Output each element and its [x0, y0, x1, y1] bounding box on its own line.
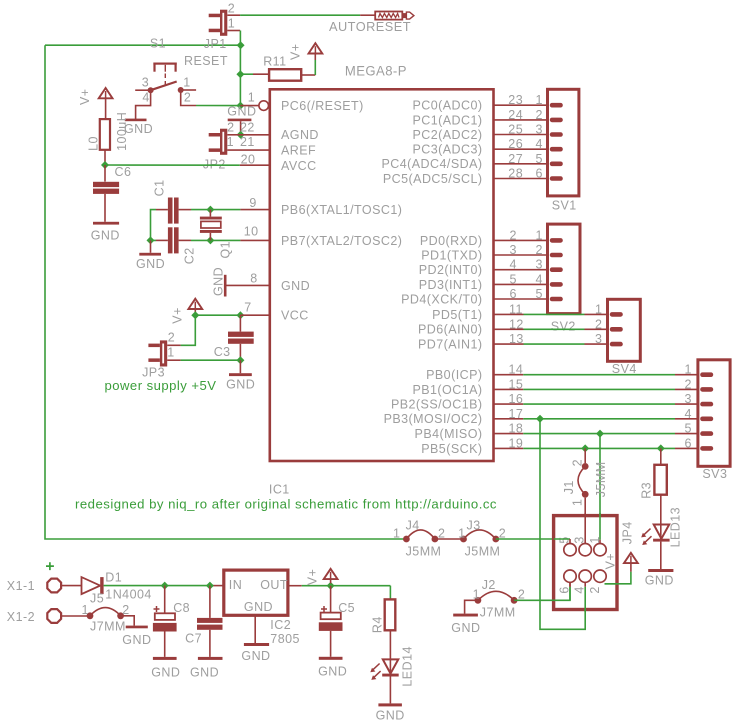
wire JP4 pin6 stub: [569, 582, 571, 600]
svg-text:100uH: 100uH: [115, 112, 129, 151]
pin line 10: [240, 239, 269, 241]
wire XTAL2 net pin 10: [191, 239, 240, 241]
svg-text:1: 1: [571, 499, 585, 506]
ground C5 GND: [318, 657, 347, 679]
svg-text:GND: GND: [451, 621, 480, 635]
svg-text:R4: R4: [370, 616, 384, 633]
svg-text:7805: 7805: [270, 632, 300, 646]
junction node C7: [206, 582, 214, 590]
solder jumper J5 J7MM: [82, 592, 130, 634]
svg-text:OUT: OUT: [260, 578, 288, 592]
capacitor C5 (polarized): [319, 586, 355, 657]
wire JP4 pin4 stub: [584, 582, 586, 612]
svg-text:J2: J2: [482, 578, 496, 592]
svg-text:PD7(AIN1): PD7(AIN1): [418, 338, 482, 352]
wire SCK to J1: [584, 448, 586, 463]
svg-text:2: 2: [228, 1, 235, 15]
LED LED14: [370, 646, 414, 703]
svg-text:C2: C2: [182, 247, 196, 264]
svg-text:PB1(OC1A): PB1(OC1A): [412, 383, 482, 397]
svg-text:2: 2: [588, 586, 602, 593]
svg-text:V+: V+: [604, 553, 618, 570]
svg-text:10: 10: [244, 225, 259, 239]
wire PD1 pin3: [494, 254, 549, 256]
wire AVCC pin 20: [240, 164, 270, 166]
svg-text:J4: J4: [406, 519, 420, 533]
svg-text:PC2(ADC2): PC2(ADC2): [412, 128, 482, 142]
wire XTAL gnd left: [151, 210, 157, 241]
junction node RESET/JP1: [237, 41, 245, 49]
connector SV1: [548, 89, 579, 212]
ground C7 GND: [190, 657, 223, 680]
svg-text:LED13: LED13: [669, 507, 683, 547]
op IC1 MEGA8 box: [270, 89, 494, 461]
wire JP1 pin2 to autoreset: [240, 14, 360, 16]
wire PD5 pin11: [494, 313, 610, 315]
wire RESET loop net (left big loop): [45, 44, 241, 46]
ground C8 GND: [151, 657, 180, 680]
svg-text:5: 5: [510, 272, 517, 286]
svg-text:D1: D1: [105, 571, 122, 585]
ground (crystal) GND: [136, 240, 165, 271]
jumper JP2: [203, 120, 270, 171]
crystal Q1: [200, 210, 233, 259]
svg-text:2: 2: [184, 91, 191, 105]
svg-text:2: 2: [168, 331, 175, 345]
svg-text:SV1: SV1: [552, 199, 577, 213]
svg-text:4: 4: [685, 407, 692, 421]
svg-text:15: 15: [509, 377, 524, 391]
svg-text:5: 5: [536, 287, 543, 301]
svg-text:GND: GND: [226, 377, 255, 391]
svg-text:1: 1: [393, 527, 400, 541]
svg-text:22: 22: [240, 120, 255, 134]
svg-text:1: 1: [685, 363, 692, 377]
wire JP4 pin3 stub: [584, 513, 586, 544]
wire J3 to JP4 pin5: [496, 538, 570, 541]
svg-text:2: 2: [571, 459, 585, 466]
junction node OUT/C5/V+: [327, 582, 335, 590]
svg-text:12: 12: [509, 317, 524, 331]
svg-text:18: 18: [509, 422, 524, 436]
label pins right side: [381, 99, 482, 456]
svg-text:2: 2: [227, 120, 234, 134]
wire PD3 pin5: [494, 283, 549, 285]
svg-text:IC1: IC1: [269, 483, 290, 497]
svg-text:PD6(AIN0): PD6(AIN0): [418, 323, 482, 337]
ground J5 GND: [121, 616, 152, 647]
power V+ (L0): [78, 88, 112, 119]
wire J4 to J3: [435, 538, 464, 540]
svg-text:PC1(ADC1): PC1(ADC1): [412, 113, 482, 127]
svg-text:JP2: JP2: [203, 157, 226, 171]
svg-text:19: 19: [509, 436, 524, 450]
svg-text:X1-2: X1-2: [7, 610, 35, 624]
svg-text:PB0(ICP): PB0(ICP): [426, 368, 482, 382]
svg-text:JP4: JP4: [621, 521, 635, 544]
svg-text:GND: GND: [241, 649, 270, 663]
svg-text:J1: J1: [562, 480, 576, 494]
svg-text:1N4004: 1N4004: [105, 588, 152, 602]
junction node AGND: [237, 131, 245, 139]
ground LED13 GND: [645, 569, 674, 588]
svg-text:X1-1: X1-1: [7, 579, 35, 593]
wire PD7 pin13: [494, 343, 610, 345]
wire J2 to JP4 pin6: [514, 587, 570, 601]
svg-text:V+: V+: [78, 88, 92, 105]
svg-text:PC4(ADC4/SDA): PC4(ADC4/SDA): [381, 157, 482, 171]
wire PC3 pin26: [494, 148, 549, 150]
svg-text:GND: GND: [281, 279, 310, 293]
svg-text:PD2(INT0): PD2(INT0): [419, 263, 483, 277]
svg-text:6: 6: [510, 287, 517, 301]
svg-text:1: 1: [227, 135, 234, 149]
junction node C3/JP3/GND: [236, 356, 244, 364]
svg-text:SV3: SV3: [702, 467, 727, 481]
junction node PB4/MISO: [596, 430, 604, 438]
svg-text:SV4: SV4: [612, 362, 637, 376]
wire MOSI to JP4 pin4: [540, 419, 585, 630]
svg-text:4: 4: [536, 137, 543, 151]
svg-text:PB2(SS/OC1B): PB2(SS/OC1B): [391, 398, 483, 412]
solder jumper J4 J5MM: [403, 519, 445, 559]
svg-text:PD5(T1): PD5(T1): [432, 308, 482, 322]
svg-text:2: 2: [518, 588, 525, 602]
svg-text:1: 1: [473, 588, 480, 602]
svg-text:2: 2: [122, 603, 129, 617]
resistor R4: [370, 586, 395, 660]
svg-text:PD0(RXD): PD0(RXD): [420, 234, 483, 248]
wire PC5 pin28: [494, 178, 549, 180]
wire PB1 pin15: [494, 388, 700, 390]
capacitor C2: [156, 227, 196, 264]
svg-text:2: 2: [685, 377, 692, 391]
svg-text:5: 5: [685, 422, 692, 436]
junction node XTAL2/Q1: [206, 236, 214, 244]
wire JP4 pin5 stub: [554, 539, 570, 544]
junction node C2/GND: [147, 236, 155, 244]
svg-text:C8: C8: [173, 601, 190, 615]
svg-text:V+: V+: [306, 569, 320, 586]
ground IC2 GND: [241, 643, 270, 663]
svg-text:GND: GND: [136, 257, 165, 271]
svg-text:J7MM: J7MM: [480, 606, 516, 620]
junction node XTAL1/Q1: [206, 206, 214, 214]
ground (above JP2, inverted): [228, 119, 252, 135]
wire PD2 pin4: [494, 269, 549, 271]
svg-text:J3: J3: [467, 519, 481, 533]
svg-text:PB3(MOSI/OC2): PB3(MOSI/OC2): [384, 412, 483, 426]
wire MISO to JP4 pin1: [599, 434, 601, 540]
junction node PB3/MOSI: [536, 415, 544, 423]
svg-text:C1: C1: [152, 180, 166, 197]
svg-text:JP1: JP1: [204, 37, 227, 51]
wire S1 pin2 to RESET junction: [196, 105, 240, 107]
junction node PB5/SCK: [581, 444, 589, 452]
wire PD6 pin12: [494, 328, 610, 330]
svg-text:PC5(ADC5/SCL): PC5(ADC5/SCL): [383, 172, 483, 186]
svg-text:C5: C5: [338, 601, 355, 615]
wire AGND pin 22: [241, 134, 270, 136]
svg-text:AGND: AGND: [281, 128, 319, 142]
svg-text:SV2: SV2: [551, 320, 576, 334]
solder jumper J2 J7MM: [473, 578, 526, 620]
wire XTAL1 net pin 9: [191, 209, 240, 211]
svg-text:PC6(/RESET): PC6(/RESET): [281, 99, 364, 113]
connector SV3: [698, 360, 730, 481]
pin 1 inversion bubble PC6: [259, 101, 269, 111]
svg-text:J7MM: J7MM: [90, 620, 126, 634]
svg-text:1: 1: [536, 93, 543, 107]
wire PD4 pin6: [494, 298, 549, 300]
junction node VCC/C3: [236, 311, 244, 319]
resistor R3: [640, 448, 667, 524]
svg-text:V+: V+: [289, 43, 303, 60]
svg-text:PB7(XTAL2/TOSC2): PB7(XTAL2/TOSC2): [281, 234, 402, 248]
svg-text:26: 26: [508, 137, 523, 151]
svg-text:11: 11: [509, 302, 523, 316]
wire PB3 pin17: [494, 418, 700, 420]
wire RESET to PC6 pin: [240, 105, 259, 107]
switch S1: [135, 37, 228, 119]
capacitor C1: [152, 180, 191, 224]
svg-text:PB5(SCK): PB5(SCK): [421, 442, 482, 456]
power V+ (R11): [289, 43, 323, 75]
svg-text:1: 1: [183, 76, 190, 90]
svg-text:AREF: AREF: [281, 144, 316, 158]
svg-text:17: 17: [509, 407, 524, 421]
capacitor C3: [214, 315, 254, 360]
svg-text:1: 1: [248, 91, 255, 105]
svg-text:1: 1: [82, 603, 89, 617]
svg-text:27: 27: [508, 152, 523, 166]
svg-text:C6: C6: [115, 165, 132, 179]
wire V+ to JP4 pin2: [605, 572, 631, 584]
wire PB2 pin16: [494, 403, 700, 405]
ground pin8 (rotated GND): [212, 267, 270, 297]
wire JP3 pin1 to C3 gnd: [181, 359, 241, 361]
svg-text:1: 1: [536, 228, 543, 242]
label plus (power in): [46, 562, 54, 570]
svg-text:LED14: LED14: [400, 646, 414, 686]
svg-text:GND: GND: [318, 665, 347, 679]
jumper JP1: [204, 1, 240, 51]
svg-text:MEGA8-P: MEGA8-P: [345, 64, 407, 79]
svg-text:4: 4: [142, 91, 149, 105]
power V+ (VCC): [170, 299, 202, 324]
svg-text:C3: C3: [214, 345, 231, 359]
wire PC4 pin27: [494, 163, 549, 165]
svg-text:PC0(ADC0): PC0(ADC0): [412, 99, 482, 113]
inductor L0: [87, 112, 129, 165]
svg-text:redesigned by niq_ro after ori: redesigned by niq_ro after original sche…: [75, 498, 497, 512]
connector SV2: [548, 224, 581, 333]
jumper JP3: [142, 331, 181, 380]
svg-text:GND: GND: [645, 574, 674, 588]
svg-text:V+: V+: [170, 307, 184, 324]
wire PB5 pin19: [494, 447, 700, 449]
solder jumper J1 J5MM: [562, 459, 608, 506]
wire JP4 pin2 stub: [605, 583, 619, 585]
ground C6 GND: [91, 222, 120, 243]
regulator IC2 7805: [224, 570, 300, 646]
svg-text:25: 25: [508, 123, 523, 137]
diode D1 1N4004: [82, 571, 152, 602]
svg-text:S1: S1: [150, 37, 166, 51]
junction node AVCC/L0/C6: [101, 161, 109, 169]
svg-text:IC2: IC2: [270, 618, 291, 632]
wire PB0 pin14: [494, 374, 700, 376]
svg-text:1: 1: [228, 16, 235, 30]
svg-text:4: 4: [510, 258, 517, 272]
svg-text:AUTORESET: AUTORESET: [329, 20, 411, 34]
svg-text:JP3: JP3: [142, 366, 165, 380]
solder jumper AUTORESET: [329, 12, 414, 35]
junction node C8: [161, 582, 169, 590]
ground J2 GND: [451, 600, 480, 635]
svg-text:5: 5: [536, 152, 543, 166]
wire JP3 pin2 riser: [181, 315, 196, 345]
svg-text:RESET: RESET: [184, 54, 228, 68]
junction node RESET/PC6: [236, 102, 244, 110]
svg-text:3: 3: [536, 258, 543, 272]
wire PC2 pin25: [494, 134, 549, 136]
svg-text:1: 1: [458, 527, 465, 541]
pad X1-1: [47, 579, 61, 593]
ground C3 GND: [226, 360, 255, 391]
svg-text:J5MM: J5MM: [594, 461, 608, 497]
svg-text:J5MM: J5MM: [465, 545, 501, 559]
capacitor C7: [185, 586, 222, 657]
svg-text:GND: GND: [91, 229, 120, 243]
svg-text:PB4(MISO): PB4(MISO): [415, 427, 483, 441]
svg-text:VCC: VCC: [281, 309, 309, 323]
label pins left side: [281, 99, 402, 323]
svg-text:R11: R11: [263, 54, 286, 68]
svg-text:20: 20: [241, 152, 256, 166]
svg-text:9: 9: [249, 196, 256, 210]
wire PC0 pin23: [494, 104, 549, 106]
wire VCC net: [195, 314, 240, 316]
svg-text:14: 14: [509, 363, 524, 377]
svg-text:GND: GND: [122, 633, 151, 647]
wire D1 to IC2 IN: [104, 585, 212, 587]
pin line 7 VCC: [240, 314, 269, 316]
svg-text:PD3(INT1): PD3(INT1): [419, 278, 483, 292]
svg-text:28: 28: [508, 167, 523, 181]
capacitor C8 (polarized): [153, 586, 190, 657]
svg-text:6: 6: [685, 436, 692, 450]
svg-text:4: 4: [536, 272, 543, 286]
capacitor C6: [93, 165, 131, 222]
svg-text:24: 24: [508, 108, 523, 122]
svg-text:13: 13: [509, 332, 524, 346]
svg-text:R3: R3: [640, 482, 654, 499]
wire OUT +5V: [288, 585, 302, 587]
wire JP4 pin1 stub: [599, 513, 601, 544]
junction node V+/JP3: [191, 311, 199, 319]
svg-text:GND: GND: [244, 600, 273, 614]
svg-text:GND: GND: [227, 105, 256, 119]
svg-text:Q1: Q1: [218, 241, 232, 259]
svg-text:3: 3: [595, 332, 602, 346]
wire JP1 pin1 down to junction: [239, 31, 241, 106]
pad X1-2: [47, 609, 61, 623]
svg-text:GND: GND: [151, 666, 180, 680]
wire AVCC net: [105, 164, 240, 166]
svg-text:1: 1: [167, 345, 174, 359]
svg-text:GND: GND: [190, 666, 219, 680]
connector JP4: [554, 516, 635, 610]
wire PB4 pin18: [494, 433, 700, 435]
wire PC1 pin24: [494, 119, 549, 121]
svg-text:GND: GND: [212, 267, 226, 296]
svg-text:IN: IN: [229, 578, 242, 592]
ground LED14 GND: [376, 703, 405, 722]
svg-text:2: 2: [510, 228, 517, 242]
wire X1-2 to J5: [62, 615, 91, 617]
svg-text:23: 23: [508, 93, 523, 107]
junction node RESET/R11: [236, 70, 244, 78]
solder jumper J3 J5MM: [458, 519, 506, 559]
svg-text:PC3(ADC3): PC3(ADC3): [412, 143, 482, 157]
wire PD0 pin2: [494, 239, 549, 241]
pin line 9: [240, 209, 269, 211]
svg-text:2: 2: [536, 243, 543, 257]
wire: [45, 45, 406, 539]
svg-text:2: 2: [595, 317, 602, 331]
wire J1 to JP4 pin3: [584, 498, 586, 544]
resistor R11: [240, 54, 315, 80]
svg-text:AVCC: AVCC: [281, 159, 317, 173]
power V+ (JP4): [624, 553, 638, 572]
svg-text:3: 3: [510, 243, 517, 257]
svg-text:3: 3: [536, 123, 543, 137]
power V+ (OUT): [306, 569, 338, 586]
svg-text:PD4(XCK/T0): PD4(XCK/T0): [401, 292, 482, 306]
LED LED13: [641, 507, 682, 569]
svg-text:21: 21: [240, 135, 255, 149]
svg-text:7: 7: [244, 300, 251, 314]
svg-text:16: 16: [509, 392, 524, 406]
svg-text:3: 3: [685, 392, 692, 406]
ground S1 GND: [124, 119, 153, 136]
svg-text:3: 3: [142, 76, 149, 90]
wire X1-1 to D1: [62, 585, 82, 587]
svg-text:L0: L0: [87, 136, 101, 151]
svg-text:power supply +5V: power supply +5V: [105, 379, 217, 393]
svg-text:PD1(TXD): PD1(TXD): [421, 248, 482, 262]
svg-text:6: 6: [536, 167, 543, 181]
svg-text:J5MM: J5MM: [406, 545, 442, 559]
svg-text:8: 8: [250, 272, 257, 286]
connector SV4: [608, 299, 641, 376]
svg-text:C7: C7: [185, 632, 202, 646]
svg-text:2: 2: [536, 108, 543, 122]
junction node PB5/R3: [657, 444, 665, 452]
svg-text:1: 1: [595, 302, 602, 316]
svg-text:GND: GND: [376, 709, 405, 723]
svg-text:PB6(XTAL1/TOSC1): PB6(XTAL1/TOSC1): [281, 203, 402, 217]
svg-text:J5: J5: [90, 592, 104, 606]
